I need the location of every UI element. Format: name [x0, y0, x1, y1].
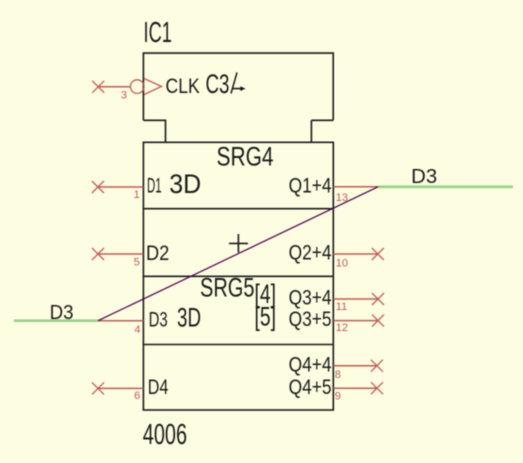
- svg-text:3D: 3D: [169, 169, 201, 199]
- svg-text:9: 9: [335, 391, 341, 403]
- section divider 1: [143, 208, 333, 210]
- no-connect X on pin 8: [371, 360, 383, 372]
- IC U1 main body outline: [143, 142, 333, 410]
- svg-text:Q4+5: Q4+5: [289, 376, 332, 399]
- pin CLK (3) line: [98, 86, 130, 88]
- pin Q4+4 (8) line: [333, 365, 377, 367]
- pin CLK clock wedge: [144, 79, 162, 95]
- svg-text:Q1+4: Q1+4: [289, 175, 332, 198]
- pin Q4+5 (9) line: [333, 387, 377, 389]
- dynamic input slash: [231, 73, 237, 94]
- no-connect X on pin 3: [92, 81, 104, 93]
- dynamic input arrow: [233, 88, 241, 90]
- svg-text:1: 1: [134, 189, 140, 201]
- origin cross marker: [229, 234, 248, 253]
- no-connect X on pin 12: [372, 315, 384, 327]
- svg-text:SRG4: SRG4: [217, 141, 274, 171]
- svg-text:D3: D3: [411, 166, 437, 188]
- svg-text:6: 6: [134, 390, 140, 402]
- svg-text:[5]: [5]: [255, 302, 277, 332]
- svg-text:D1: D1: [147, 175, 162, 198]
- svg-text:D2: D2: [146, 242, 169, 265]
- svg-text:IC1: IC1: [144, 17, 172, 49]
- svg-text:D4: D4: [148, 376, 169, 399]
- no-connect X on pin 1: [92, 181, 104, 193]
- wire (diagonal net from pin 4 node to pin 13 node): [98, 187, 378, 321]
- no-connect X on pin 9: [371, 382, 383, 394]
- svg-text:D3: D3: [50, 302, 74, 324]
- svg-text:5: 5: [134, 257, 140, 269]
- svg-text:Q3+5: Q3+5: [289, 308, 332, 331]
- svg-text:Q3+4: Q3+4: [289, 287, 332, 310]
- svg-text:Q4+4: Q4+4: [289, 353, 332, 376]
- svg-text:3D: 3D: [177, 303, 201, 333]
- net D3 wire (right): [378, 186, 513, 189]
- pin D4 (6) line: [98, 387, 143, 389]
- pin D1 (1) line: [98, 186, 143, 188]
- no-connect X on pin 11: [372, 293, 384, 305]
- pin Q1+4 (13) line: [333, 186, 378, 188]
- svg-text:C3: C3: [206, 69, 230, 99]
- pin D3 (4) line: [98, 320, 143, 322]
- IC U1 control block outline (top box of IC1): [143, 53, 333, 142]
- no-connect X on pin 6: [92, 382, 104, 394]
- svg-text:CLK: CLK: [166, 75, 200, 98]
- net D3 wire (left): [14, 319, 98, 322]
- no-connect X on pin 5: [92, 248, 104, 260]
- pin D2 (5) line: [98, 253, 143, 255]
- svg-text:Q2+4: Q2+4: [289, 242, 332, 265]
- pin Q2+4 (10) line: [333, 253, 378, 255]
- svg-text:4006: 4006: [143, 419, 187, 451]
- svg-text:8: 8: [335, 369, 341, 381]
- no-connect X on pin 10: [372, 248, 384, 260]
- svg-text:3: 3: [121, 89, 127, 101]
- pin CLK inversion bubble: [130, 80, 144, 94]
- svg-text:12: 12: [336, 322, 348, 334]
- pin Q3+4 (11) line: [333, 298, 378, 300]
- svg-text:10: 10: [336, 258, 348, 270]
- svg-text:4: 4: [134, 324, 140, 336]
- section divider 3: [143, 344, 333, 346]
- pin Q3+5 (12) line: [333, 320, 378, 322]
- svg-text:SRG5: SRG5: [200, 273, 255, 303]
- section divider 2: [143, 275, 333, 277]
- svg-text:D3: D3: [149, 308, 168, 331]
- svg-text:11: 11: [336, 301, 347, 313]
